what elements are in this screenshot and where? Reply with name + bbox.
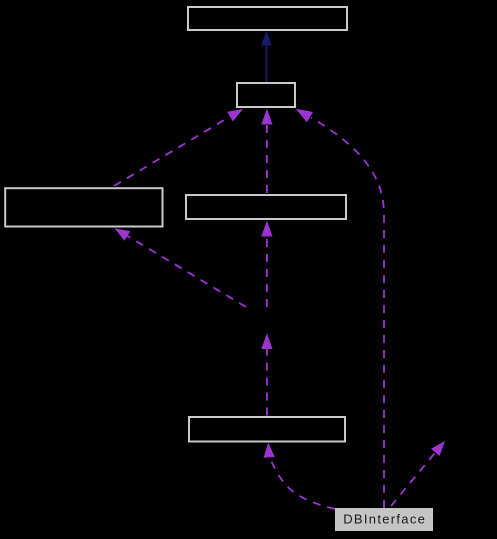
node box B (left class) (5, 188, 162, 226)
usage edge DBInterface to A (long right-side dashed purple) (311, 118, 384, 509)
inheritance edge A to T (solid blue) (266, 44, 268, 82)
node box A (derived class, center) (237, 83, 295, 107)
node box D (lower class) (189, 417, 345, 442)
usage edge to C bottom (dashed purple vertical, label hidden) (266, 236, 268, 307)
usage edge D up to hidden label (dashed purple vertical with mid arrowhead) (266, 349, 268, 416)
node box C (middle class) (186, 195, 346, 219)
usage edge C to A (dashed purple vertical) (266, 124, 268, 193)
usage edge DBInterface to upper-right hidden node (dashed purple diagonal) (391, 452, 435, 506)
node box T (top base class) (188, 7, 347, 30)
usage edge DBInterface to D (curved dashed purple) (270, 458, 336, 510)
node DBInterface (current class) (335, 508, 433, 531)
usage edge to B bottom (dashed purple diagonal, label hidden) (127, 236, 246, 307)
usage edge B to A (dashed purple diagonal) (114, 116, 231, 186)
svg-text:DBInterface: DBInterface (343, 512, 426, 527)
